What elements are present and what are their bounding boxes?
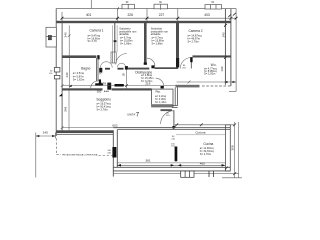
chimney B bbox=[154, 4, 168, 9]
rip door jamb bbox=[161, 86, 164, 88]
entrance door leaf bbox=[173, 110, 175, 128]
svg-text:401: 401 bbox=[86, 13, 92, 17]
soggiorno door jamb B bbox=[107, 83, 111, 90]
chimney A bbox=[122, 4, 134, 9]
roof eaves line top bbox=[56, 8, 236, 10]
rip room box bbox=[152, 89, 173, 107]
right wall ticks bbox=[224, 56, 227, 59]
rip measurements bbox=[155, 94, 167, 104]
svg-text:308: 308 bbox=[230, 145, 234, 150]
svg-text:400: 400 bbox=[200, 162, 205, 166]
soggiorno top wall right part bbox=[112, 88, 152, 90]
corridor wall right of rip bbox=[172, 87, 178, 107]
small eave arrow marks top-right bbox=[228, 14, 231, 17]
disimpegno measurements bbox=[141, 73, 154, 83]
bagno door arc bbox=[91, 81, 98, 88]
sottotetto1 door dome arc bbox=[117, 63, 125, 67]
sottotetto2 door arc bbox=[147, 58, 155, 66]
jamb right black bbox=[125, 66, 128, 70]
soggiorno bottom wall bbox=[56, 130, 113, 133]
sottotetto 2 measurements bbox=[152, 36, 165, 46]
top dim ticks bbox=[61, 17, 238, 20]
left wall outer face bbox=[55, 9, 57, 137]
eave return top-right bbox=[229, 90, 236, 92]
sottotetto1 door arc bbox=[116, 54, 127, 65]
bagno right wall bbox=[96, 58, 98, 81]
svg-text:S= 1,86m: S= 1,86m bbox=[152, 42, 164, 46]
main top wall bbox=[56, 21, 231, 23]
right wall upper band bbox=[225, 9, 231, 86]
flue X mark bbox=[48, 35, 51, 39]
kitchen right dim lines bbox=[222, 122, 242, 178]
svg-text:226: 226 bbox=[127, 13, 133, 17]
kitchen right wall band bbox=[225, 125, 230, 171]
svg-text:Cottura: Cottura bbox=[195, 131, 205, 135]
niche extension line bbox=[126, 70, 128, 91]
camera1 door dome arc bbox=[100, 62, 112, 68]
black arrow at bagno dim crossing bbox=[69, 85, 72, 87]
camera 2 measurements bbox=[188, 33, 203, 43]
flue cabinet box on left wall bbox=[46, 27, 56, 47]
kitchen bottom wall bbox=[113, 167, 230, 171]
soggiorno measurements bbox=[97, 101, 112, 111]
wc door jamb bbox=[190, 57, 192, 62]
window black bar in step wall bbox=[112, 147, 116, 158]
svg-text:S= 2,70m: S= 2,70m bbox=[188, 39, 200, 43]
wall camera1/sottotetto1 bbox=[112, 25, 117, 52]
svg-text:Cucina: Cucina bbox=[203, 142, 213, 146]
dim line 559 bbox=[61, 84, 178, 87]
svg-text:145: 145 bbox=[43, 130, 48, 134]
wc door arc bbox=[180, 58, 191, 69]
soggiorno door hinge dots bbox=[104, 91, 109, 92]
short wall piece left of bundle bbox=[105, 68, 110, 70]
step wall inner face bbox=[116, 130, 118, 168]
knot on wall c1/s1 bbox=[114, 40, 117, 42]
bagno door top jamb bbox=[97, 55, 99, 59]
wall sottotetto1/sottotetto2 bbox=[144, 21, 147, 63]
cottura counter line bbox=[176, 134, 225, 136]
step wall bbox=[112, 130, 114, 176]
kitchen top dim line bbox=[175, 124, 235, 126]
black wall bar in kitchen bbox=[175, 147, 178, 162]
dashed roof projection horizontal left bbox=[56, 154, 61, 156]
svg-text:340: 340 bbox=[221, 32, 225, 37]
bagno/soggiorno wall bbox=[62, 88, 102, 90]
sottotetto 1 measurements bbox=[120, 36, 133, 46]
svg-text:602: 602 bbox=[112, 124, 117, 128]
camera1 bottom wall bbox=[62, 55, 96, 58]
bagno window jambs in left wall bbox=[54, 68, 60, 79]
room label sottotetto 1 bbox=[119, 27, 137, 37]
wc bottom wall solid bbox=[176, 85, 200, 88]
svg-text:38: 38 bbox=[123, 73, 126, 76]
svg-text:S= 1,62m: S= 1,62m bbox=[73, 77, 85, 81]
wc measurements bbox=[204, 66, 217, 75]
disimpegno top wall bbox=[128, 68, 150, 70]
ridge extension line above roof bbox=[90, 0, 92, 9]
svg-text:110: 110 bbox=[49, 73, 53, 75]
rip bottom wall hatched bbox=[152, 104, 173, 107]
soggiorno bottom wall outer line bbox=[56, 133, 113, 135]
wc bottom wall dashed bbox=[202, 85, 231, 87]
svg-text:227: 227 bbox=[159, 13, 165, 17]
dashed roof projection horizontal bbox=[99, 154, 117, 156]
bottom eave line bbox=[113, 173, 238, 175]
bagno door bottom jamb T bbox=[99, 79, 101, 83]
kitchen top wall band bbox=[113, 128, 230, 130]
jamb S1/S2 bottom bbox=[144, 63, 147, 65]
svg-text:abitabile: abitabile bbox=[119, 32, 129, 36]
entrance lintel bar bbox=[161, 109, 172, 111]
svg-text:240: 240 bbox=[107, 153, 111, 155]
svg-text:230: 230 bbox=[65, 72, 69, 77]
svg-text:210: 210 bbox=[166, 115, 170, 117]
entrance door arc bbox=[161, 111, 174, 124]
dashed roof projection vertical bbox=[55, 138, 57, 154]
wc dim arrows bbox=[224, 81, 228, 83]
black bar on 559 line bbox=[115, 84, 124, 87]
dim line 602 bbox=[61, 126, 176, 129]
svg-text:S= 2,70m: S= 2,70m bbox=[97, 108, 109, 112]
roofline tick 2 bbox=[160, 7, 161, 9]
bagno vertical dim line bbox=[69, 58, 71, 88]
svg-text:340: 340 bbox=[63, 32, 67, 37]
svg-text:Camera 1: Camera 1 bbox=[90, 29, 104, 33]
camera 1 measurements bbox=[88, 33, 101, 43]
svg-text:60: 60 bbox=[126, 2, 129, 4]
svg-text:559: 559 bbox=[101, 82, 106, 86]
canna fumaria bundle bbox=[111, 52, 116, 63]
svg-text:349: 349 bbox=[64, 107, 68, 112]
svg-text:7: 7 bbox=[136, 113, 140, 119]
kitchen inner dim line B bbox=[117, 164, 225, 166]
short wall piece right of bundle bbox=[118, 68, 124, 70]
svg-text:350: 350 bbox=[97, 89, 102, 93]
window symbol in bottom kitchen wall bbox=[181, 171, 194, 177]
svg-text:S= 1,86m: S= 1,86m bbox=[120, 42, 132, 46]
svg-text:210: 210 bbox=[171, 139, 175, 141]
cucina measurements bbox=[200, 146, 215, 156]
wc small dim line bbox=[177, 81, 237, 84]
svg-text:210: 210 bbox=[182, 67, 186, 69]
wall corner black tick bbox=[59, 93, 62, 96]
sottotetto2 door jamb bbox=[151, 65, 154, 68]
entrance door jamb bbox=[172, 126, 175, 129]
svg-text:Camera 2: Camera 2 bbox=[189, 29, 203, 33]
svg-text:Rip.: Rip. bbox=[156, 89, 162, 93]
svg-text:Soggiorno: Soggiorno bbox=[96, 97, 111, 101]
svg-text:S= 2,70: S= 2,70 bbox=[88, 39, 98, 43]
kitchen inner dim line A bbox=[117, 162, 225, 164]
tick pair in bottom wall bbox=[209, 171, 214, 177]
bagno measurements bbox=[73, 71, 85, 81]
svg-text:60: 60 bbox=[212, 2, 215, 4]
svg-text:S= 1,44m: S= 1,44m bbox=[155, 100, 167, 104]
svg-text:S= 2,70m: S= 2,70m bbox=[200, 152, 212, 156]
left wall inner face bbox=[61, 23, 63, 133]
chimney C bbox=[205, 5, 222, 9]
svg-text:abitabile: abitabile bbox=[151, 32, 161, 36]
wc top wall bbox=[193, 55, 231, 57]
dim 145 bottom left bbox=[36, 133, 56, 178]
svg-text:S= 3,22m: S= 3,22m bbox=[141, 79, 153, 83]
svg-text:S= 1,82m: S= 1,82m bbox=[204, 72, 216, 76]
jamb S2/C2 bottom dark bbox=[176, 58, 179, 68]
wall camera1/sottotetto1 center line bbox=[114, 21, 116, 52]
svg-text:381: 381 bbox=[145, 158, 150, 162]
top dimension line bbox=[62, 9, 236, 22]
svg-text:190: 190 bbox=[220, 66, 224, 71]
wc door leaf bbox=[190, 58, 192, 69]
soggiorno vertical dim line bbox=[68, 91, 70, 131]
svg-text:W.c.: W.c. bbox=[211, 63, 217, 67]
svg-text:140: 140 bbox=[107, 150, 111, 152]
jamb left black bbox=[99, 68, 102, 73]
roof eaves line right upper bbox=[235, 9, 237, 92]
svg-text:Bagno: Bagno bbox=[81, 66, 90, 70]
room label sottotetto 2 bbox=[151, 27, 169, 37]
roofline tick 1 bbox=[118, 7, 119, 9]
dim arrows on line B bbox=[117, 164, 121, 166]
svg-text:403: 403 bbox=[204, 13, 210, 17]
camera1 vertical dim line bbox=[68, 25, 71, 55]
disimpegno top wall segment 2 bbox=[155, 67, 179, 69]
wall sottotetto2/camera2 bbox=[176, 21, 179, 62]
svg-text:PROIEZIONE FALDA COPERTURA: PROIEZIONE FALDA COPERTURA bbox=[62, 153, 98, 156]
corner ticks bottom right bbox=[225, 167, 228, 170]
rip door arc bbox=[156, 78, 164, 86]
